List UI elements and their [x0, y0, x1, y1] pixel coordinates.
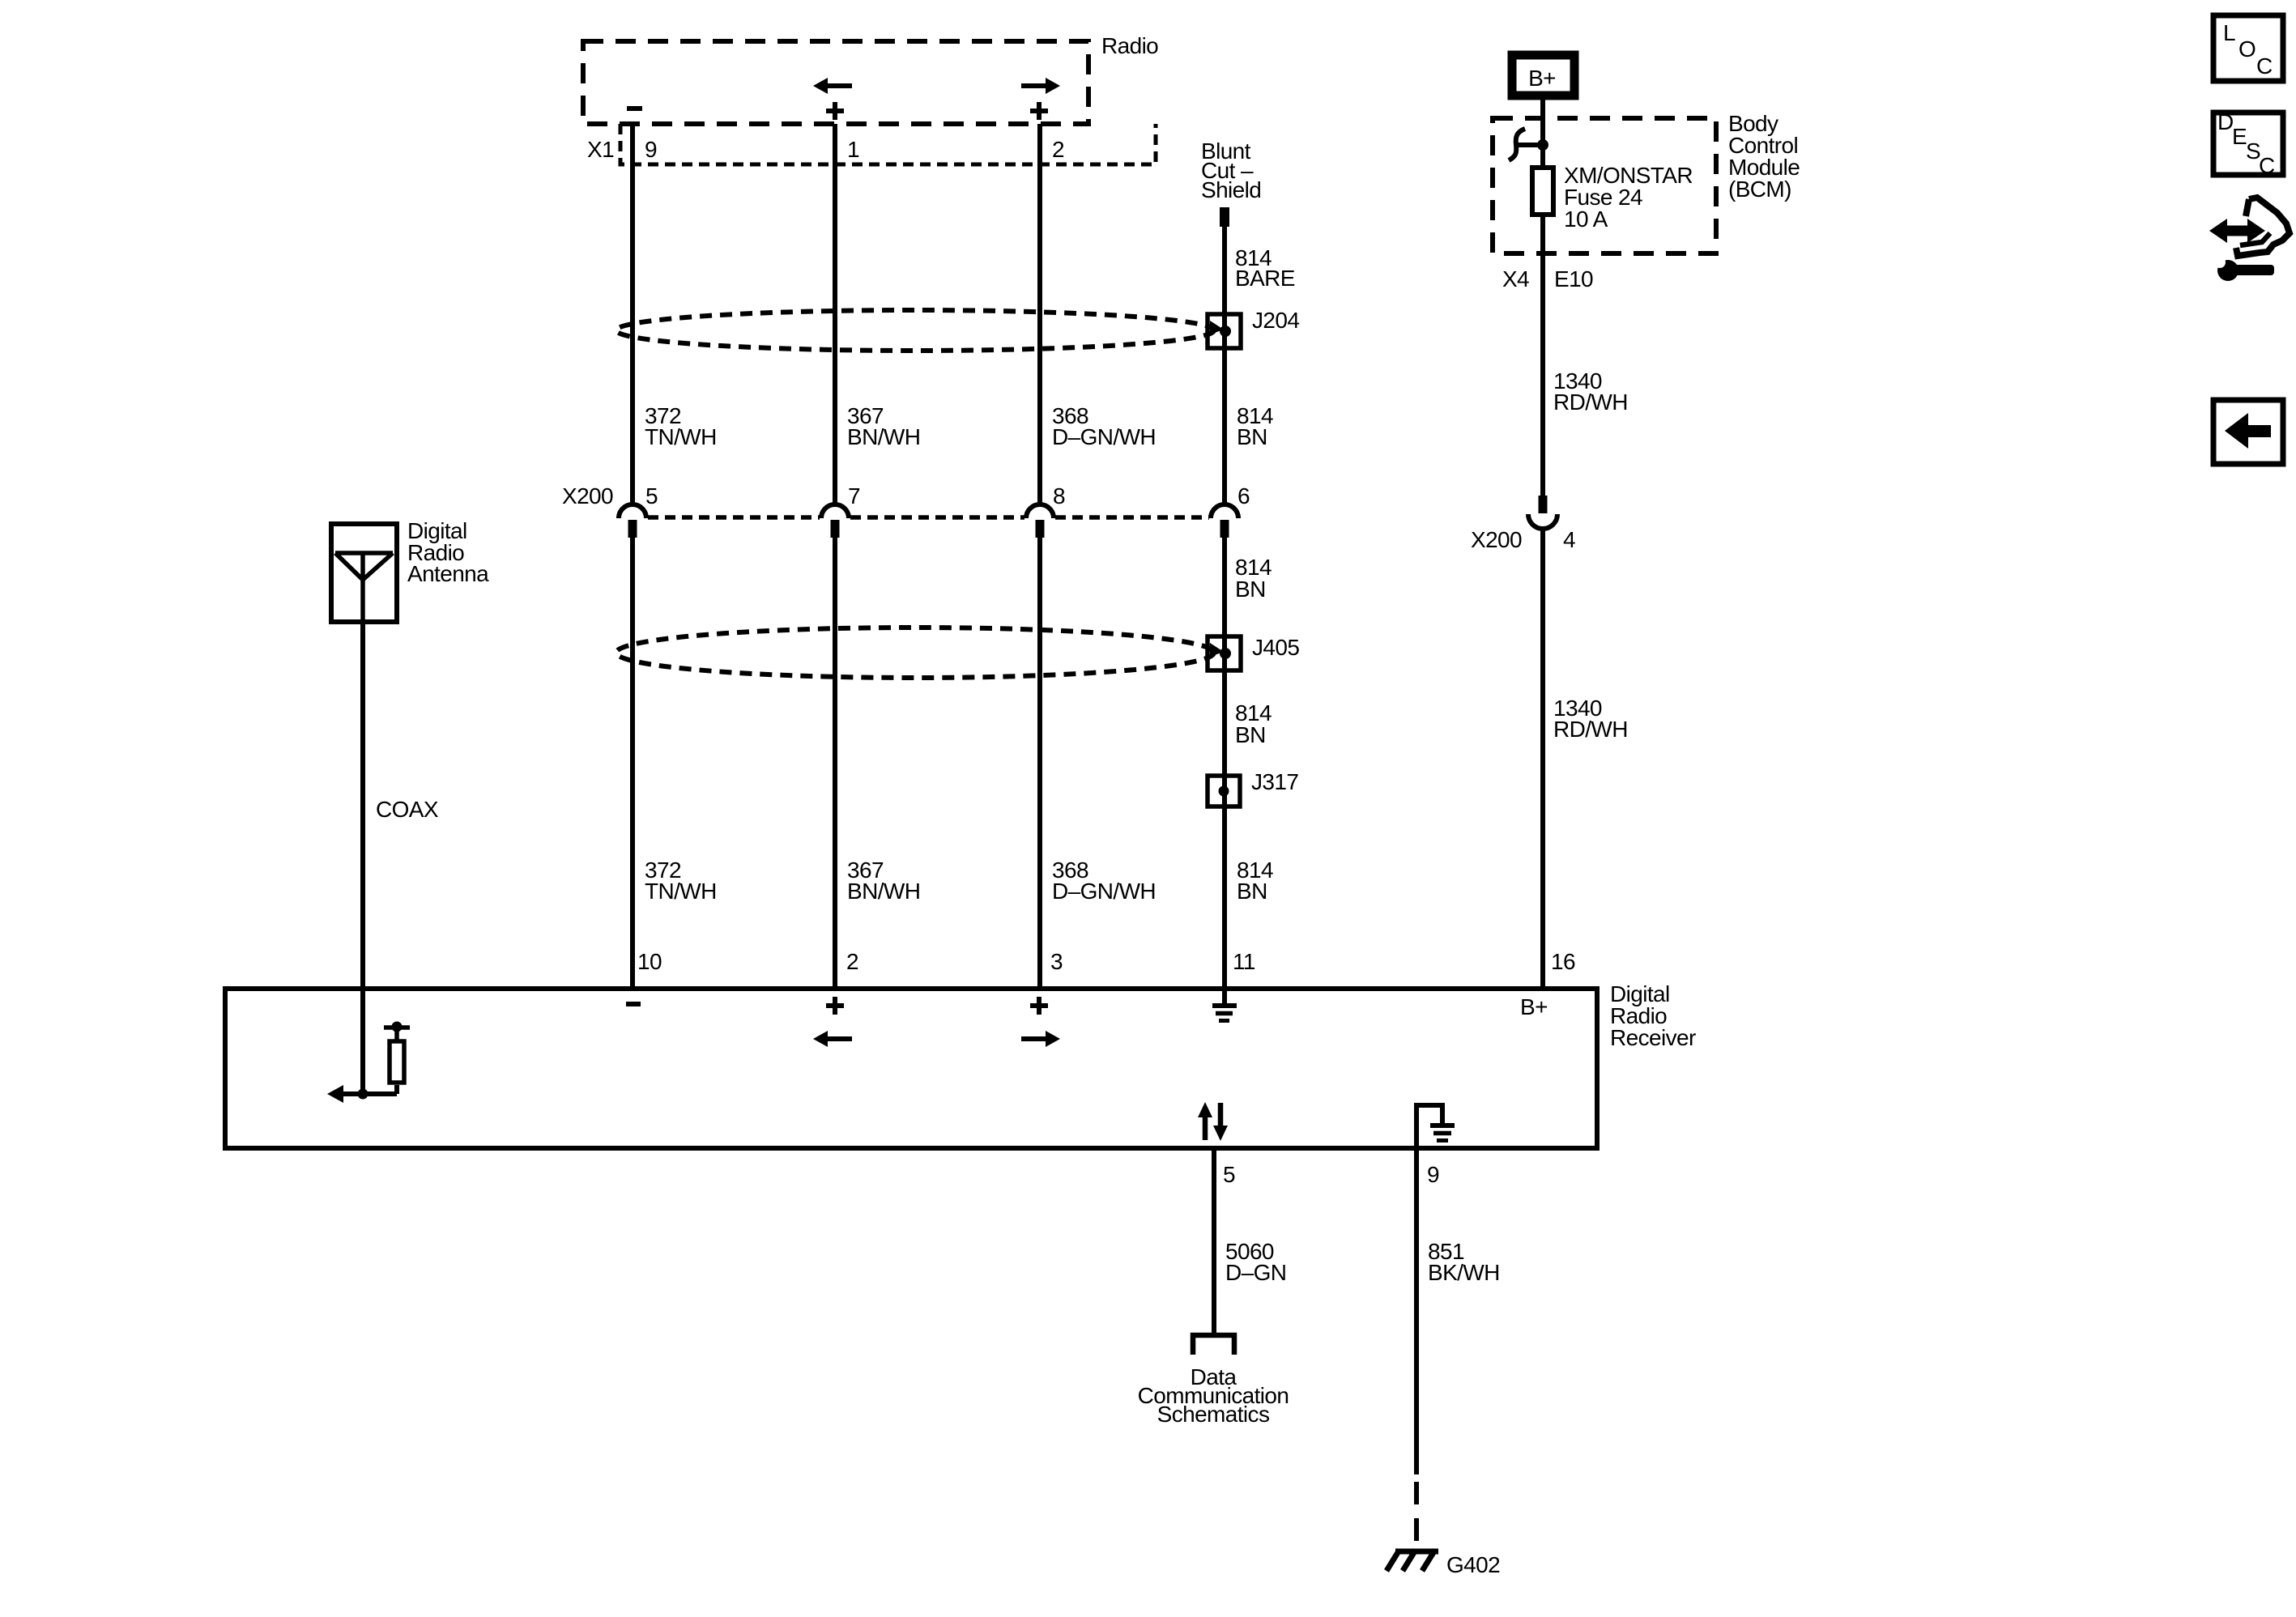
wire 851 BK/WH solid: [1414, 1148, 1419, 1474]
terminal + (radio pin 2): [1030, 102, 1048, 120]
svg-text:L: L: [2223, 20, 2235, 45]
connector X1 (dashed): [620, 124, 1156, 164]
svg-text:BN: BN: [1237, 879, 1267, 904]
connector X200 dashed tie line: [648, 515, 1209, 520]
svg-text:2: 2: [1052, 137, 1064, 162]
internal ground (receiver pin 11): [1212, 989, 1237, 1021]
wire 5060 D-GN: [1212, 1148, 1216, 1335]
radio (dashed component box): [583, 41, 1088, 124]
right audio arrow (radio): [1021, 78, 1060, 94]
connector X200 cavity 6: [1211, 504, 1238, 538]
wire 1340 RD/WH lower segment: [1540, 529, 1545, 989]
icon DESC: [2213, 109, 2283, 178]
terminal + (radio pin 1): [826, 102, 844, 120]
svg-text:10: 10: [637, 949, 662, 974]
svg-text:D: D: [2217, 109, 2234, 134]
svg-text:3: 3: [1050, 949, 1063, 974]
svg-text:9: 9: [645, 137, 657, 162]
digital radio antenna: [331, 524, 397, 624]
svg-text:9: 9: [1427, 1162, 1439, 1187]
fuse XM/ONSTAR Fuse 24 10 A: [1532, 168, 1553, 215]
svg-text:5: 5: [645, 483, 658, 509]
wire 367 BN/WH upper segment: [833, 124, 837, 504]
wire fuse to X200: [1540, 215, 1545, 496]
svg-text:RD/WH: RD/WH: [1553, 389, 1628, 415]
termination resistor (receiver internal): [384, 1022, 410, 1083]
wire 368 D-GN/WH lower segment: [1037, 538, 1042, 989]
svg-text:X4: X4: [1502, 266, 1529, 291]
svg-text:O: O: [2238, 36, 2256, 62]
wire 372 TN/WH upper segment: [630, 124, 635, 504]
blunt cut terminal: [1220, 207, 1229, 227]
svg-text:BN/WH: BN/WH: [847, 424, 920, 449]
wire 851 BK/WH dashed: [1414, 1482, 1419, 1551]
svg-text:COAX: COAX: [376, 797, 439, 822]
wire 814 BN (X200 to receiver): [1222, 538, 1227, 989]
svg-text:J405: J405: [1252, 635, 1299, 660]
svg-text:Antenna: Antenna: [407, 561, 489, 586]
connector X200 cavity 5: [619, 504, 646, 538]
svg-text:X1: X1: [587, 137, 614, 162]
twisted pair loop (dashed ellipse, lower): [616, 628, 1214, 678]
svg-text:TN/WH: TN/WH: [645, 424, 717, 449]
left audio arrow (receiver): [813, 1031, 852, 1047]
wire 814 BARE segment: [1222, 227, 1227, 504]
icon back arrow: [2213, 400, 2283, 464]
svg-text:7: 7: [848, 483, 860, 509]
svg-text:1: 1: [847, 137, 859, 162]
power feed B+: [1512, 55, 1574, 96]
icon connector repair (arrow, plug outline, wrench): [2209, 198, 2290, 281]
coax input network (receiver internal): [327, 989, 397, 1103]
terminal - (receiver pin 10): [626, 1002, 641, 1006]
svg-text:8: 8: [1053, 483, 1065, 509]
internal bus hook (BCM): [1509, 129, 1548, 160]
svg-text:RD/WH: RD/WH: [1553, 717, 1628, 742]
svg-text:B+: B+: [1520, 994, 1548, 1019]
twisted pair loop (dashed ellipse, upper): [616, 310, 1214, 351]
svg-text:BN: BN: [1235, 722, 1266, 747]
svg-text:(BCM): (BCM): [1728, 177, 1791, 202]
svg-text:E: E: [2232, 124, 2247, 149]
svg-text:J204: J204: [1252, 308, 1299, 333]
svg-text:D–GN: D–GN: [1225, 1260, 1286, 1285]
terminal - (radio pin 9): [627, 106, 642, 111]
terminal + (receiver pin 3): [1030, 997, 1048, 1015]
splice J204: [1208, 314, 1241, 348]
right audio arrow (receiver): [1021, 1031, 1060, 1047]
svg-text:Schematics: Schematics: [1157, 1402, 1270, 1427]
splice J405: [1208, 636, 1241, 670]
data up/down arrows (receiver pin 5): [1198, 1102, 1228, 1141]
svg-text:D–GN/WH: D–GN/WH: [1052, 879, 1156, 904]
svg-text:X200: X200: [1471, 527, 1522, 552]
wire B+ to fuse: [1540, 100, 1545, 168]
svg-text:4: 4: [1563, 527, 1575, 552]
body control module (dashed box): [1493, 118, 1716, 253]
wire COAX: [360, 624, 365, 989]
splice J317: [1208, 776, 1240, 806]
svg-text:Radio: Radio: [1101, 33, 1158, 58]
icon LOC: [2213, 15, 2283, 81]
svg-text:E10: E10: [1554, 266, 1593, 291]
svg-text:C: C: [2259, 153, 2275, 178]
wire 368 D-GN/WH upper segment: [1037, 124, 1042, 504]
connector X200 cavity 7: [821, 504, 849, 538]
left audio arrow (radio): [813, 78, 852, 94]
connector X200 cavity 4: [1528, 496, 1557, 529]
svg-text:16: 16: [1551, 949, 1575, 974]
digital radio receiver (component box): [225, 989, 1597, 1148]
svg-text:BN: BN: [1235, 577, 1266, 602]
svg-text:X200: X200: [562, 483, 613, 509]
svg-text:Receiver: Receiver: [1610, 1025, 1696, 1050]
wire 367 BN/WH lower segment: [833, 538, 837, 989]
svg-text:G402: G402: [1446, 1552, 1500, 1577]
svg-text:2: 2: [846, 949, 858, 974]
wire 372 TN/WH lower segment: [630, 538, 635, 989]
case ground elbow (receiver pin 9): [1416, 1105, 1455, 1148]
svg-text:10 A: 10 A: [1564, 206, 1608, 232]
svg-text:11: 11: [1233, 949, 1255, 974]
svg-text:C: C: [2256, 53, 2273, 79]
svg-text:BARE: BARE: [1235, 266, 1295, 291]
svg-text:TN/WH: TN/WH: [645, 879, 717, 904]
svg-text:Shield: Shield: [1201, 177, 1261, 202]
svg-text:5: 5: [1223, 1162, 1235, 1187]
svg-text:D–GN/WH: D–GN/WH: [1052, 424, 1156, 449]
svg-text:BN/WH: BN/WH: [847, 879, 920, 904]
connector X200 cavity 8: [1026, 504, 1054, 538]
off-page connector to data schematics: [1193, 1335, 1234, 1355]
svg-text:J317: J317: [1251, 769, 1298, 794]
svg-text:B+: B+: [1528, 66, 1556, 91]
ground G402: [1387, 1550, 1438, 1571]
svg-text:6: 6: [1237, 483, 1250, 509]
terminal + (receiver pin 2): [826, 997, 844, 1015]
svg-text:BK/WH: BK/WH: [1428, 1260, 1500, 1285]
svg-text:BN: BN: [1237, 424, 1267, 449]
